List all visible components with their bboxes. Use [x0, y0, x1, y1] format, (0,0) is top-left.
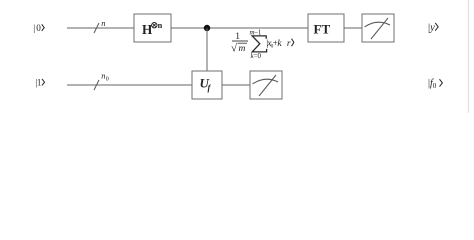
svg-text:n: n — [158, 21, 163, 30]
bus slash n0 — [94, 71, 109, 91]
control dot — [204, 25, 210, 31]
gate H^(x)n — [134, 14, 171, 42]
wire bottom-left segment — [67, 84, 192, 86]
page edge artifact line — [468, 0, 470, 113]
ket |f0> output label — [428, 78, 442, 90]
svg-text:k=0: k=0 — [251, 52, 262, 60]
svg-text:|: | — [33, 24, 35, 34]
svg-text:n: n — [101, 18, 105, 28]
svg-text:m−1: m−1 — [250, 28, 262, 36]
svg-text:0: 0 — [106, 76, 109, 82]
wire H to FT — [171, 27, 308, 29]
wire vertical control line — [206, 28, 208, 71]
meter M2 (measurement) — [250, 71, 282, 99]
svg-text:1: 1 — [235, 32, 240, 42]
svg-text:|y: |y — [428, 22, 435, 33]
state formula label — [231, 28, 294, 60]
gate FT — [308, 14, 344, 42]
ket |y> output label — [428, 22, 438, 33]
ket |1> input label — [35, 77, 44, 88]
svg-text:√: √ — [231, 43, 238, 55]
svg-text:FT: FT — [314, 22, 331, 37]
ket |0> input label — [33, 23, 44, 34]
wire top-left segment — [67, 27, 134, 29]
wire FT to meter — [344, 27, 362, 29]
svg-text:m: m — [239, 44, 246, 54]
bus slash n — [94, 18, 106, 33]
svg-text:1: 1 — [37, 77, 42, 87]
meter M1 (measurement) — [362, 14, 394, 42]
wire Uf to meter — [222, 84, 250, 86]
svg-text:r: r — [287, 39, 291, 49]
svg-text:0: 0 — [36, 23, 41, 33]
gate Uf — [192, 71, 222, 99]
